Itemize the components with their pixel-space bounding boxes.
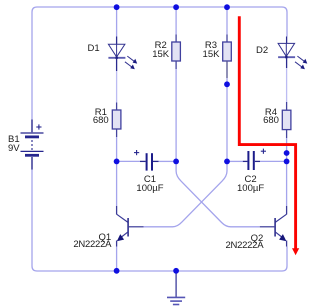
resistor R1 — [112, 103, 121, 138]
label R2 value — [136, 50, 186, 59]
node dot C1 right — [173, 159, 179, 165]
node dot right branch upper — [284, 150, 290, 156]
capacitor C2 — [229, 149, 266, 170]
wire cross-coupling C2 node to Q1 base — [144, 161, 228, 226]
resistor R2 — [172, 35, 181, 70]
ground — [167, 271, 185, 305]
wire R2 branch from top rail — [175, 7, 177, 35]
wire D1 to R1 — [116, 71, 118, 103]
wire D2 branch / LED D2 — [278, 37, 307, 70]
wire left rail lower + bottom rail + right corner up to Q2 emitter — [32, 169, 287, 271]
label R4 — [246, 108, 296, 117]
wire R2 to C1 right node — [175, 69, 177, 161]
wire C1 node down to Q1 collector — [116, 161, 118, 206]
label R2 — [136, 41, 186, 50]
node dot top R3 — [224, 4, 230, 10]
wire R3 branch from top rail — [226, 7, 228, 35]
resistor R4 — [282, 102, 291, 138]
label Q1 type — [73, 240, 111, 249]
label D1 — [88, 44, 100, 53]
label R3 value — [186, 50, 236, 59]
label C2 — [226, 175, 276, 184]
node dot top R2 — [173, 4, 179, 10]
node dot R3 branch — [224, 81, 230, 87]
wire top-right corner down to D2 — [282, 7, 287, 37]
label R1 value — [76, 116, 126, 125]
label C2 value — [226, 184, 276, 193]
wire top-left corner + left rail upper — [32, 7, 37, 120]
transistor Q1 — [117, 206, 144, 247]
capacitor C1 — [118, 150, 159, 171]
wire R3 to C2 left node — [226, 78, 228, 161]
label C1 value — [125, 184, 175, 193]
label R1 — [76, 108, 126, 117]
node dot top D1 — [114, 4, 120, 10]
battery B1 — [21, 120, 44, 170]
resistor R3 — [223, 35, 232, 79]
wire cross-coupling C1 node to Q2 base — [176, 161, 260, 226]
wire R1 to C1 node — [116, 137, 118, 161]
wire D2 to R4 — [286, 68, 288, 102]
node dot Q1 emitter bottom — [114, 268, 120, 274]
label Q1 — [99, 233, 112, 242]
label Q2 — [251, 234, 264, 243]
label C1 — [125, 175, 175, 184]
wire top rail — [37, 6, 282, 8]
node dot ground — [173, 268, 179, 274]
node dot C2 right — [284, 159, 290, 165]
label Q2 type — [225, 241, 263, 250]
transistor Q2 — [260, 206, 287, 247]
wire C2 to Q2 collector node — [260, 160, 285, 162]
wire C1 to R2 node — [159, 160, 175, 162]
label D2 — [256, 46, 268, 55]
current path highlight (red) — [239, 16, 295, 249]
label B1 — [8, 135, 20, 144]
wire Q1 emitter to bottom rail — [116, 247, 118, 271]
label R3 — [186, 41, 236, 50]
label B1 value — [8, 144, 20, 153]
node dot C1 left — [114, 159, 120, 165]
label R4 value — [246, 116, 296, 125]
wire R4 down to C2 right node and Q2 collector — [286, 138, 288, 206]
wire D1 branch from top rail — [116, 7, 118, 37]
LED D1 — [108, 37, 137, 72]
node dot C2 left — [224, 159, 230, 165]
